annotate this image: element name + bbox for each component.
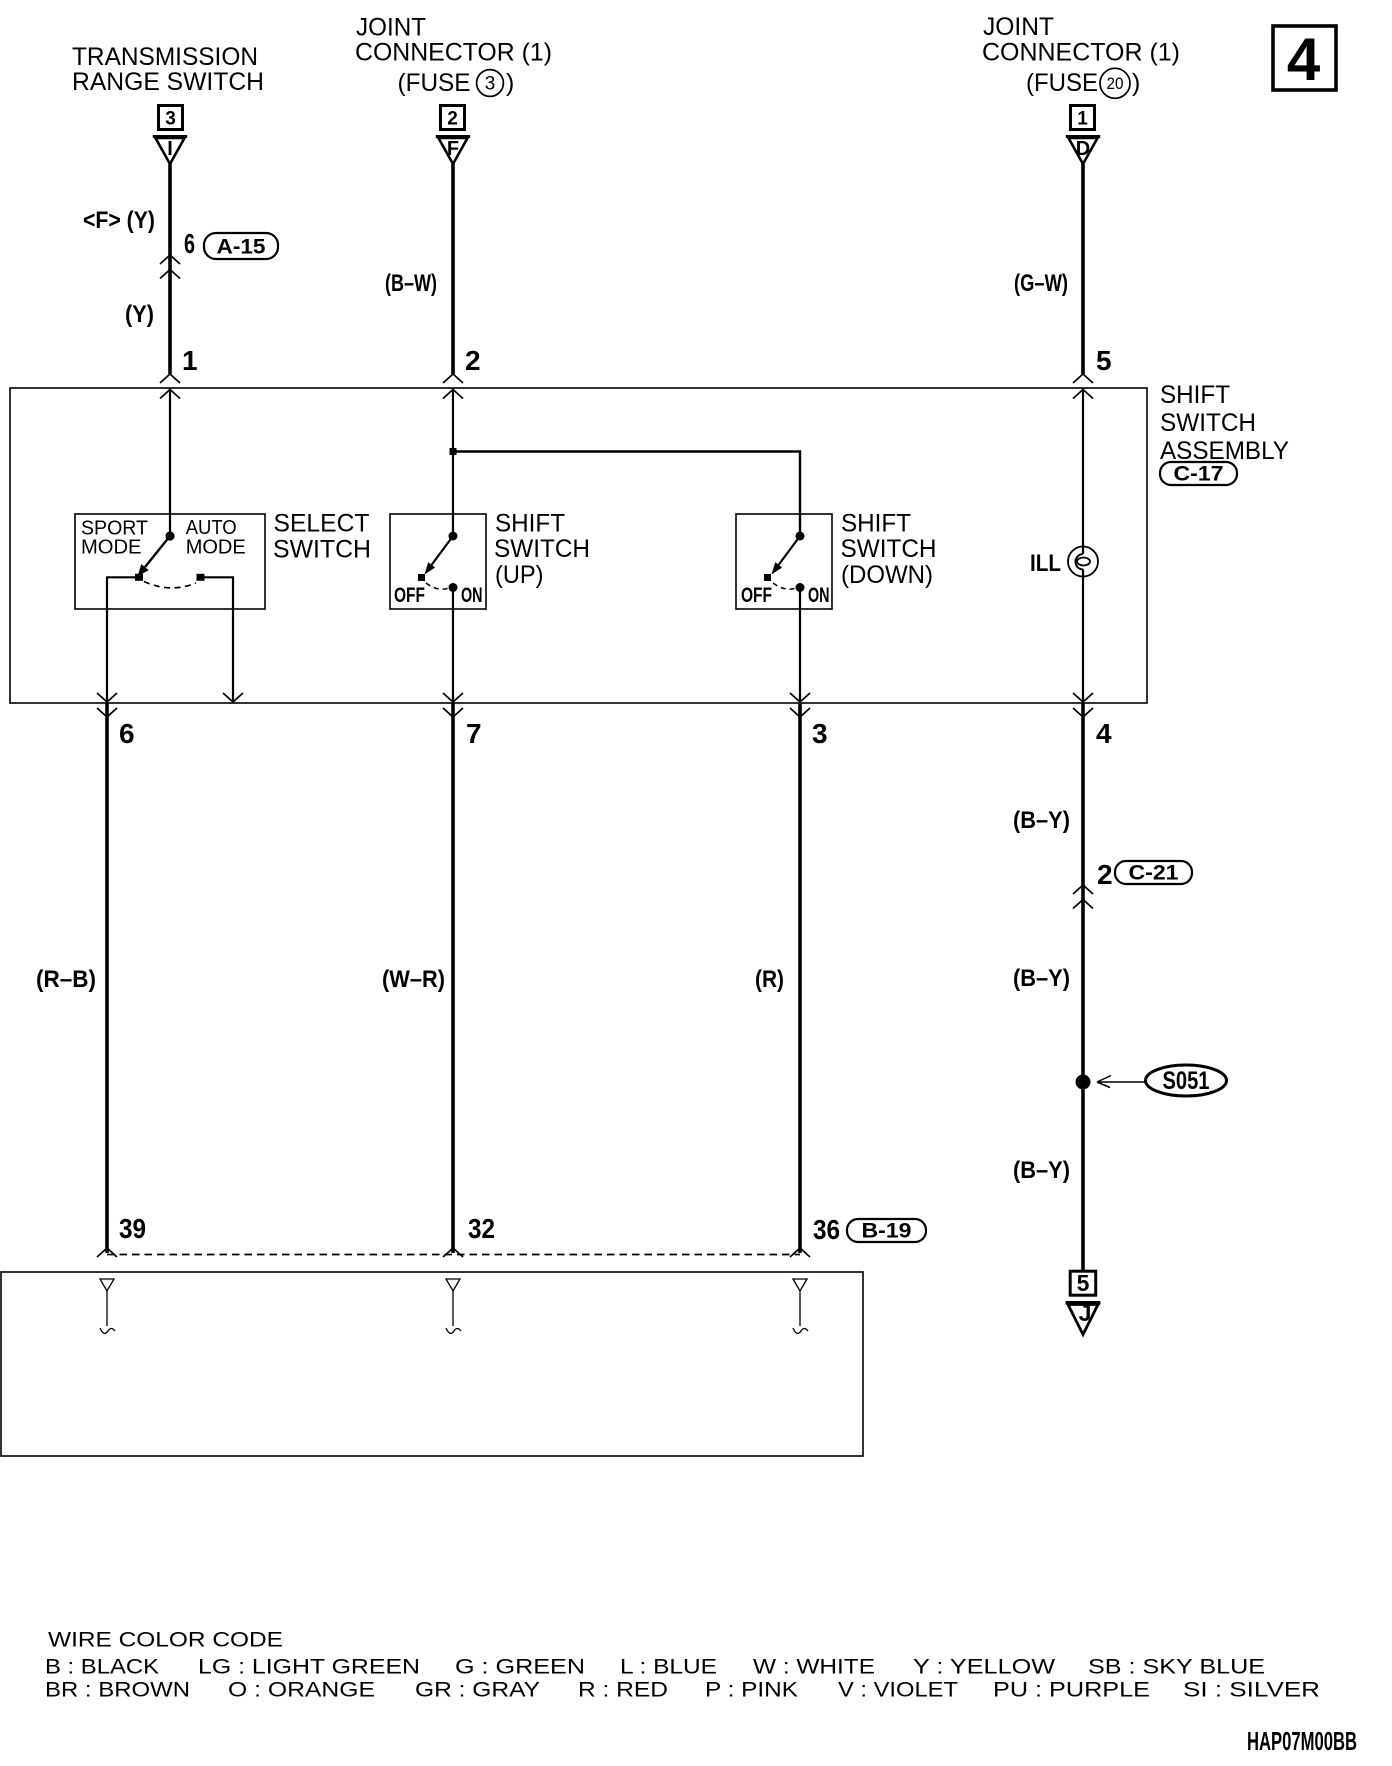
svg-text:W : WHITE: W : WHITE: [753, 1656, 875, 1679]
svg-text:G : GREEN: G : GREEN: [455, 1656, 585, 1679]
svg-text:(B–W): (B–W): [385, 270, 437, 297]
svg-text:MODE: MODE: [186, 537, 246, 559]
svg-text:(DOWN): (DOWN): [841, 561, 933, 589]
wire junction to shift switch down: [453, 452, 800, 537]
svg-text:(UP): (UP): [495, 561, 544, 589]
shift switch assembly box: [10, 388, 1147, 703]
svg-text:3: 3: [485, 74, 496, 95]
svg-text:(Y): (Y): [125, 301, 154, 328]
page number box 4: [1273, 26, 1336, 93]
svg-text:3: 3: [165, 109, 176, 130]
svg-text:ASSEMBLY: ASSEMBLY: [1160, 437, 1289, 465]
svg-text:GR : GRAY: GR : GRAY: [415, 1679, 540, 1702]
wire G-W from joint connector D: [1081, 163, 1085, 374]
chevrons at pin 5 entry: [1073, 374, 1093, 383]
wire shift up to pin 7: [452, 588, 454, 704]
shift switch down box: [736, 514, 832, 609]
svg-text:ON: ON: [808, 584, 830, 607]
svg-text:(B–Y): (B–Y): [1013, 1157, 1070, 1184]
svg-text:SWITCH: SWITCH: [494, 535, 590, 563]
svg-text:RANGE SWITCH: RANGE SWITCH: [72, 68, 264, 96]
svg-text:J: J: [1079, 1300, 1092, 1326]
svg-text:6: 6: [184, 228, 195, 259]
svg-text:ILL: ILL: [1030, 550, 1061, 577]
svg-text:PU : PURPLE: PU : PURPLE: [993, 1679, 1150, 1702]
legend WIRE COLOR CODE: [45, 1629, 1320, 1702]
contact rail sport: [107, 577, 136, 703]
connector C-21 oval: [1115, 861, 1192, 885]
svg-text:(FUSE: (FUSE: [1026, 69, 1098, 97]
svg-text:I: I: [167, 138, 173, 160]
svg-text:R : RED: R : RED: [578, 1679, 668, 1702]
svg-text:7: 7: [466, 718, 482, 749]
svg-text:(R): (R): [755, 966, 784, 993]
wire B-Y pin4 down: [1081, 703, 1085, 1270]
wire W-R pin7 to ECU: [451, 703, 455, 1253]
svg-text:JOINT: JOINT: [983, 13, 1054, 41]
svg-text:(B–Y): (B–Y): [1013, 807, 1070, 834]
svg-text:SWITCH: SWITCH: [1160, 409, 1256, 437]
svg-text:SHIFT: SHIFT: [841, 510, 911, 538]
connector pin box 3: [159, 106, 183, 130]
svg-text:SB : SKY BLUE: SB : SKY BLUE: [1088, 1656, 1265, 1679]
svg-text:(G–W): (G–W): [1014, 270, 1068, 297]
svg-text:OFF: OFF: [741, 584, 772, 607]
wire R pin3 to ECU: [798, 703, 802, 1253]
svg-text:D: D: [1076, 138, 1090, 160]
dashed throw arc down: [773, 583, 796, 589]
shift up on contact: [449, 583, 458, 592]
label SHIFT SWITCH ASSEMBLY: [1160, 381, 1289, 465]
svg-text:OFF: OFF: [394, 584, 425, 607]
select switch arm: [145, 536, 170, 567]
svg-text:A-15: A-15: [217, 236, 266, 259]
svg-text:2: 2: [447, 109, 458, 130]
svg-text:4: 4: [1096, 718, 1112, 749]
connector triangle J: [1066, 1300, 1101, 1335]
wire pin5 down through lamp: [1082, 388, 1084, 546]
wire shift down to pin 3: [799, 588, 801, 704]
shift down on contact: [796, 583, 805, 592]
svg-text:36: 36: [813, 1214, 840, 1245]
svg-text:39: 39: [119, 1213, 146, 1244]
chevrons at pin 4 exit: [1073, 693, 1093, 702]
svg-text:3: 3: [812, 718, 828, 749]
svg-text:(FUSE: (FUSE: [398, 69, 471, 97]
svg-text:WIRE COLOR CODE: WIRE COLOR CODE: [48, 1629, 283, 1652]
shift down common node: [796, 532, 805, 541]
svg-text:1: 1: [1077, 109, 1088, 130]
dashed throw arc up: [426, 583, 449, 589]
node junction on wire 2: [450, 448, 457, 455]
arrow at pin 6 exit: [97, 693, 117, 702]
svg-text:C-21: C-21: [1129, 862, 1179, 885]
wire end arrow pin 39: [97, 1248, 117, 1257]
select switch sport contact: [135, 574, 143, 581]
ECU box: [1, 1272, 863, 1456]
svg-text:1: 1: [182, 345, 198, 376]
svg-text:F: F: [447, 138, 459, 160]
dashed throw arc: [144, 582, 196, 588]
svg-text:SWITCH: SWITCH: [273, 536, 371, 564]
terminal symbol pin 39: [100, 1279, 115, 1333]
svg-text:O : ORANGE: O : ORANGE: [228, 1679, 375, 1702]
connector triangle D: [1066, 137, 1100, 165]
svg-text:CONNECTOR (1): CONNECTOR (1): [355, 39, 552, 67]
chevrons at pin 2 entry: [443, 374, 463, 383]
svg-text:L : BLUE: L : BLUE: [620, 1656, 717, 1679]
wire pin2 down inside box: [452, 388, 454, 536]
svg-text:2: 2: [465, 345, 481, 376]
chevrons at pin 1 entry: [160, 374, 180, 383]
chevrons at C-21: [1073, 885, 1093, 894]
svg-text:SELECT: SELECT: [274, 510, 370, 538]
shift up common node: [449, 532, 458, 541]
svg-text:SWITCH: SWITCH: [841, 535, 937, 563]
svg-text:TRANSMISSION: TRANSMISSION: [72, 43, 258, 71]
connector B-19 oval: [847, 1219, 926, 1243]
svg-text:JOINT: JOINT: [356, 14, 426, 42]
illumination lamp: [1068, 546, 1098, 578]
shift down off contact: [764, 574, 771, 581]
svg-text:P : PINK: P : PINK: [705, 1679, 798, 1702]
svg-text:): ): [506, 69, 514, 97]
svg-text:LG : LIGHT GREEN: LG : LIGHT GREEN: [198, 1656, 420, 1679]
wire end arrow pin 32: [443, 1248, 463, 1257]
connector C-17 oval: [1160, 462, 1237, 486]
terminal symbol pin 36: [793, 1279, 808, 1333]
connector pin box 1: [1071, 106, 1095, 130]
select switch common node: [165, 531, 174, 540]
inline connector chevrons on wire Y: [160, 255, 180, 264]
svg-text:MODE: MODE: [81, 537, 142, 559]
svg-text:2: 2: [1097, 859, 1113, 890]
svg-text:BR : BROWN: BR : BROWN: [45, 1679, 190, 1702]
svg-text:20: 20: [1107, 74, 1124, 93]
shift up arm: [432, 536, 453, 565]
svg-text:(W–R): (W–R): [382, 966, 445, 993]
label TRANSMISSION RANGE SWITCH: [72, 43, 264, 96]
dashed connector line B-19: [107, 1254, 800, 1256]
svg-text:CONNECTOR (1): CONNECTOR (1): [982, 39, 1180, 67]
shift switch up box: [390, 514, 486, 609]
svg-text:S051: S051: [1163, 1067, 1210, 1095]
contact rail auto: [203, 577, 233, 703]
arrow from S051 label: [1097, 1076, 1145, 1088]
connector triangle I: [153, 137, 187, 165]
wire pin1 to select switch: [169, 388, 171, 536]
svg-text:(B–Y): (B–Y): [1013, 965, 1070, 992]
select switch auto contact: [197, 574, 205, 581]
svg-text:5: 5: [1077, 1270, 1090, 1296]
svg-text:HAP07M00BB: HAP07M00BB: [1247, 1726, 1357, 1756]
svg-text:(R–B): (R–B): [36, 966, 96, 993]
connector A-15 oval: [204, 233, 278, 259]
terminal symbol pin 32: [446, 1279, 461, 1333]
wire end arrow pin 36: [790, 1248, 810, 1257]
shift down arm: [779, 536, 800, 565]
svg-text:32: 32: [468, 1213, 495, 1244]
svg-text:ON: ON: [461, 584, 483, 607]
shift up off contact: [418, 574, 425, 581]
svg-text:6: 6: [119, 718, 135, 749]
connector pin box 5: [1070, 1270, 1096, 1296]
svg-text:SHIFT: SHIFT: [495, 510, 565, 538]
svg-text:<F> (Y): <F> (Y): [83, 207, 155, 234]
wire Y from transmission range switch: [168, 163, 172, 374]
svg-text:SI : SILVER: SI : SILVER: [1183, 1679, 1320, 1702]
label JOINT CONNECTOR (1) (FUSE 20): [982, 13, 1180, 98]
svg-text:4: 4: [1287, 26, 1321, 93]
select switch box: [75, 514, 265, 609]
svg-text:B-19: B-19: [862, 1220, 912, 1243]
connector pin box 2: [441, 106, 465, 130]
svg-text:V : VIOLET: V : VIOLET: [838, 1679, 958, 1702]
wire R-B pin6 to ECU: [105, 703, 109, 1253]
connector triangle F: [436, 137, 470, 165]
svg-text:SHIFT: SHIFT: [1160, 381, 1230, 409]
svg-text:): ): [1132, 69, 1140, 97]
svg-text:C-17: C-17: [1174, 463, 1224, 486]
splice node S051: [1076, 1075, 1091, 1090]
splice label S051 oval: [1146, 1065, 1227, 1096]
svg-text:B : BLACK: B : BLACK: [45, 1656, 159, 1679]
arrow auto branch end: [223, 693, 243, 702]
svg-text:Y : YELLOW: Y : YELLOW: [913, 1656, 1055, 1679]
wire B-W from joint connector F: [451, 163, 455, 374]
label JOINT CONNECTOR (1) (FUSE 3): [355, 14, 552, 98]
svg-text:5: 5: [1096, 345, 1112, 376]
